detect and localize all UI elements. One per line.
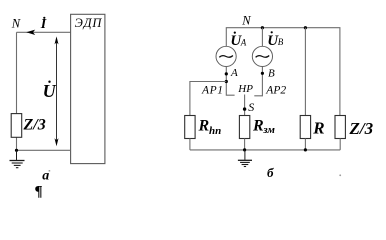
ground (circuit b) xyxy=(238,150,252,167)
wire below source B with contact foot xyxy=(254,67,262,96)
wire top horizontal (N to EDP box) xyxy=(17,31,71,33)
current arrow I xyxy=(26,30,35,35)
svg-text:б: б xyxy=(267,165,274,180)
resistor R xyxy=(300,116,310,139)
wire drop to resistor R xyxy=(304,28,306,116)
wire Rzm bottom xyxy=(244,139,246,150)
wire Rhn bottom xyxy=(189,139,191,150)
svg-text:АР1: АР1 xyxy=(201,85,224,97)
svg-text:R: R xyxy=(198,118,210,135)
wire left vertical xyxy=(16,32,18,150)
svg-text:N: N xyxy=(241,13,251,27)
label I (dotted) xyxy=(40,17,47,32)
label Rzm xyxy=(252,118,275,136)
node S dot xyxy=(243,107,246,110)
voltage arrow U (double headed) xyxy=(55,36,59,146)
junction dot Rzm-ground xyxy=(243,148,246,151)
wire Z/3 bottom xyxy=(339,139,341,150)
svg-text:НР: НР xyxy=(237,83,253,95)
wire branch A to Rhn xyxy=(190,82,226,116)
box EDP U1 xyxy=(71,14,105,163)
svg-text:S: S xyxy=(248,100,254,114)
label Rhn xyxy=(198,118,222,138)
svg-text:Z/3: Z/3 xyxy=(349,119,374,138)
svg-text:B: B xyxy=(268,67,275,79)
source UA (AC) xyxy=(216,46,236,66)
source UB (AC) xyxy=(252,46,272,66)
junction on bus at source B xyxy=(261,26,264,29)
wire bottom bus xyxy=(190,149,340,151)
resistor Rzm xyxy=(239,116,249,139)
ground (circuit a) xyxy=(10,150,25,167)
node A dot xyxy=(225,72,228,75)
svg-text:A: A xyxy=(240,37,247,47)
stray dot mark xyxy=(339,174,341,176)
wire below source A with contact foot xyxy=(226,67,234,95)
node B dot xyxy=(261,72,264,75)
svg-text:а: а xyxy=(42,168,49,183)
svg-text:I: I xyxy=(40,17,47,32)
wire top bus N xyxy=(226,28,340,116)
svg-text:R: R xyxy=(252,118,264,135)
wire R bottom xyxy=(304,139,306,150)
svg-text:B: B xyxy=(278,37,284,47)
svg-text:Z/3: Z/3 xyxy=(23,117,46,134)
label U (dotted) xyxy=(43,81,57,101)
impedance Z/3 (right) xyxy=(335,116,345,139)
wire HP pole down to S and Rzm xyxy=(244,95,246,116)
junction dot branch to Rhn xyxy=(225,80,228,83)
label UA (dotted, subscript A) xyxy=(230,31,246,49)
junction dot (ground node, circuit a) xyxy=(15,149,18,152)
svg-text:hn: hn xyxy=(209,125,221,137)
svg-text:N: N xyxy=(11,17,21,31)
label UB (dotted, subscript B) xyxy=(267,31,284,49)
svg-text:зм: зм xyxy=(262,124,275,136)
svg-text:¶: ¶ xyxy=(35,183,43,199)
svg-text:U: U xyxy=(43,81,57,101)
resistor Rhn xyxy=(185,116,195,139)
svg-text:АР2: АР2 xyxy=(265,84,286,96)
svg-text:ЭДП: ЭДП xyxy=(75,16,103,30)
svg-text:A: A xyxy=(230,67,238,79)
wire bottom horizontal xyxy=(17,149,71,151)
impedance Z/3 (left) xyxy=(11,114,22,138)
wire drop to source B xyxy=(261,28,263,47)
svg-text:R: R xyxy=(312,119,324,138)
junction dot R bottom xyxy=(304,148,307,151)
junction on bus at resistor R xyxy=(304,26,307,29)
